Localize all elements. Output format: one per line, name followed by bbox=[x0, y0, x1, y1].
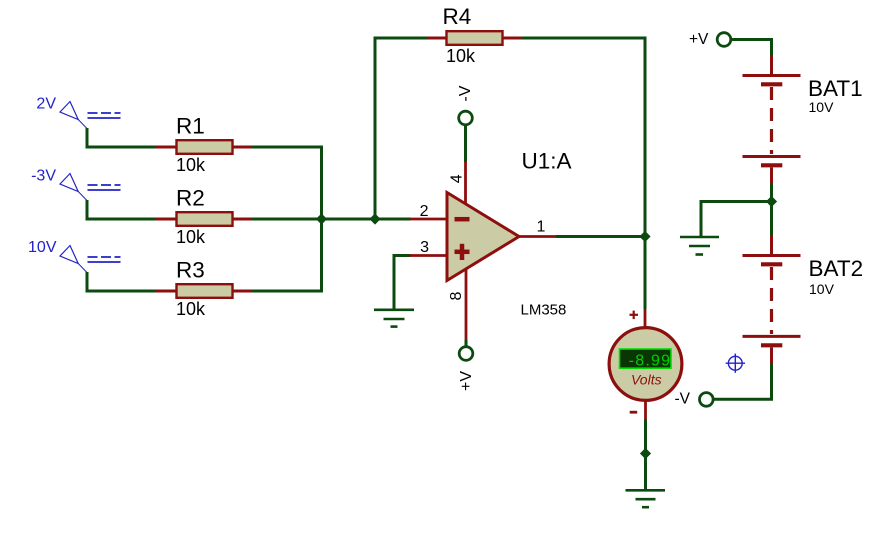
svg-text:10k: 10k bbox=[446, 46, 476, 66]
pin 2 stub bbox=[410, 218, 447, 221]
resistor R4 bbox=[427, 31, 523, 45]
svg-text:3: 3 bbox=[420, 239, 429, 256]
svg-text:10V: 10V bbox=[809, 99, 835, 115]
junction feedback node bbox=[369, 213, 380, 224]
wire pin 1 to output node bbox=[556, 235, 645, 238]
wire feedback node up to R4 bbox=[375, 38, 429, 219]
wire mid node to BAT2 bbox=[770, 202, 773, 237]
wire voltmeter to ground bbox=[644, 420, 647, 454]
wire R2 to junction bbox=[252, 218, 322, 221]
wire junction to ground symbol bbox=[644, 454, 647, 491]
junction output node bbox=[639, 231, 650, 242]
svg-text:LM358: LM358 bbox=[521, 302, 567, 319]
resistor R2 bbox=[156, 212, 253, 226]
power terminal +V (battery) bbox=[717, 33, 731, 47]
origin marker bbox=[726, 354, 745, 373]
wire pin 8 to +V terminal bbox=[465, 340, 468, 347]
svg-text:Volts: Volts bbox=[631, 372, 662, 388]
pin 4 stub bbox=[464, 162, 467, 203]
voltmeter minus mark bbox=[630, 411, 638, 414]
op-amp U1:A bbox=[447, 193, 519, 281]
wire V2 to R2 bbox=[87, 200, 158, 219]
voltmeter display bbox=[620, 349, 672, 368]
svg-text:-8.99: -8.99 bbox=[629, 353, 671, 370]
wire R4 to output node bbox=[522, 38, 645, 238]
svg-text:R4: R4 bbox=[443, 4, 472, 29]
generator V1 (2V DC source) bbox=[60, 102, 121, 129]
voltmeter plus mark bbox=[630, 311, 639, 320]
svg-text:BAT2: BAT2 bbox=[809, 256, 864, 281]
pin 3 stub bbox=[410, 254, 447, 257]
ground (op-amp pin 3) bbox=[374, 310, 414, 327]
svg-text:BAT1: BAT1 bbox=[808, 76, 863, 101]
svg-text:2: 2 bbox=[420, 203, 429, 220]
svg-text:-V: -V bbox=[457, 85, 474, 101]
wire BAT1 to mid node bbox=[770, 184, 773, 202]
wire V1 to R1 bbox=[87, 128, 158, 147]
pin 8 stub bbox=[465, 269, 468, 341]
svg-text:R3: R3 bbox=[176, 258, 205, 283]
ground (voltmeter) bbox=[626, 490, 666, 507]
svg-text:R2: R2 bbox=[176, 186, 205, 211]
wire summing node to feedback node bbox=[322, 218, 376, 221]
wire mid node to ground bbox=[701, 202, 772, 238]
svg-text:U1:A: U1:A bbox=[522, 149, 572, 174]
svg-text:2V: 2V bbox=[36, 96, 56, 113]
svg-text:+V: +V bbox=[689, 31, 709, 48]
wire V3 to R3 bbox=[87, 272, 158, 291]
wire pin 4 to -V terminal bbox=[464, 125, 467, 162]
svg-text:1: 1 bbox=[537, 219, 546, 236]
junction battery mid node bbox=[766, 196, 777, 207]
wire R1 to bus bbox=[252, 146, 323, 149]
svg-text:10V: 10V bbox=[809, 281, 835, 297]
junction voltmeter ground node bbox=[640, 448, 651, 459]
power terminal +V (op-amp) bbox=[459, 347, 473, 361]
resistor R3 bbox=[156, 284, 253, 298]
power terminal -V (op-amp) bbox=[459, 111, 473, 125]
svg-text:8: 8 bbox=[448, 291, 465, 300]
svg-text:R1: R1 bbox=[176, 114, 205, 139]
wire BAT2 to -V terminal bbox=[714, 364, 772, 399]
svg-text:-3V: -3V bbox=[31, 168, 56, 185]
wire summing bus vertical bbox=[320, 146, 323, 293]
resistor R1 bbox=[156, 140, 253, 154]
voltmeter body bbox=[609, 328, 682, 401]
wire pin 3 to ground bbox=[394, 256, 411, 310]
generator V2 (-3V DC source) bbox=[60, 174, 121, 201]
wire output node to voltmeter bbox=[644, 237, 647, 310]
wire R3 to bus bbox=[252, 290, 323, 293]
svg-text:4: 4 bbox=[449, 174, 466, 183]
generator V3 (10V DC source) bbox=[60, 246, 121, 273]
pin 1 stub bbox=[519, 235, 556, 238]
svg-text:10V: 10V bbox=[28, 239, 57, 256]
battery BAT2 bbox=[743, 236, 801, 364]
wire feedback node to pin 2 bbox=[375, 218, 411, 221]
junction summing node bbox=[316, 213, 327, 224]
ground (battery mid) bbox=[680, 237, 719, 255]
voltmeter + lead bbox=[644, 309, 647, 327]
svg-text:10k: 10k bbox=[176, 299, 206, 319]
svg-text:10k: 10k bbox=[176, 155, 206, 175]
voltmeter - lead bbox=[644, 401, 647, 420]
battery BAT1 bbox=[743, 56, 801, 184]
svg-text:+V: +V bbox=[458, 371, 475, 391]
svg-text:10k: 10k bbox=[176, 227, 206, 247]
svg-text:-V: -V bbox=[675, 391, 691, 408]
wire +V to BAT1 bbox=[731, 40, 772, 57]
power terminal -V (battery) bbox=[700, 393, 714, 407]
